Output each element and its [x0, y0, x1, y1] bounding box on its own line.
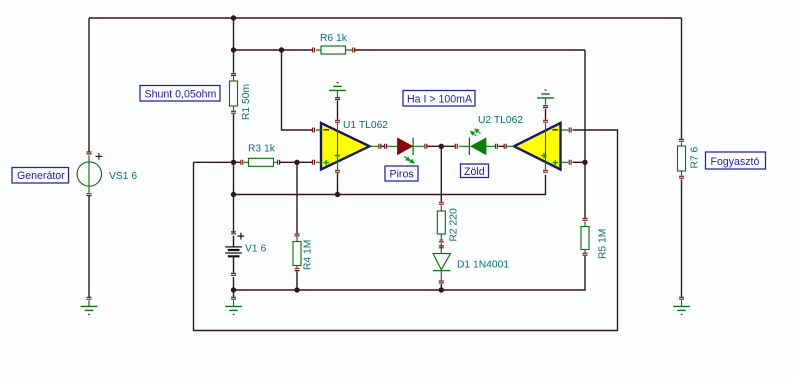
resistor R2 220	[437, 202, 459, 242]
svg-text:V1 6: V1 6	[245, 244, 266, 255]
svg-text:Generátor: Generátor	[17, 170, 65, 182]
node R3-R4 junction	[294, 160, 299, 165]
svg-text:Piros: Piros	[390, 169, 414, 181]
wire R6 row right	[355, 49, 585, 51]
wire U2 minus input feedback loop	[194, 130, 618, 331]
wire R6 right branch down to U2 plus node	[584, 50, 586, 218]
wire R6 row left	[234, 49, 312, 51]
wire R3 to U1 plus input	[280, 161, 312, 163]
resistor R6 1k	[313, 33, 355, 54]
ground below generator	[81, 297, 98, 315]
wire shunt column upper	[233, 18, 235, 73]
ground above U2	[537, 89, 554, 104]
wire left column (generator top)	[88, 18, 90, 152]
resistor R7 6	[678, 139, 701, 178]
resistor R3 1k	[241, 144, 280, 167]
wire R6 branch down to U1 inverting input	[282, 50, 313, 130]
svg-text:R7 6: R7 6	[690, 146, 701, 168]
node U1 V+ rail junction	[335, 192, 340, 197]
svg-text:R1 50m: R1 50m	[241, 84, 252, 120]
resistor R4 1M	[293, 234, 314, 271]
ground below battery	[225, 297, 242, 315]
LED D2 red (Piros)	[379, 138, 427, 163]
wire U1 V- to ground	[337, 101, 339, 120]
diode D1 1N4001	[433, 243, 509, 283]
wire LED D2 to node	[427, 145, 454, 147]
svg-text:R3 1k: R3 1k	[248, 144, 276, 155]
wire generator bottom to ground	[88, 196, 90, 298]
svg-text:U2 TL062: U2 TL062	[478, 115, 523, 126]
svg-text:Ha I > 100mA: Ha I > 100mA	[407, 93, 473, 105]
node battery-rail junction	[231, 192, 236, 197]
resistor R5 1M	[581, 218, 609, 259]
wire supply rail y194	[234, 175, 546, 195]
op-amp U1 TL062	[313, 98, 389, 173]
svg-text:R2 220: R2 220	[449, 208, 460, 241]
voltage source VS1 6	[77, 152, 137, 196]
node D1 bottom junction	[439, 287, 444, 292]
node R6-feedback junction	[279, 47, 284, 52]
svg-text:U1 TL062: U1 TL062	[343, 120, 388, 131]
node battery ground junction	[231, 287, 236, 292]
wire shunt column mid	[233, 114, 235, 233]
wire U1 output to LED	[381, 145, 385, 147]
LED D3 green (Zold)	[455, 129, 506, 155]
label Ha I > 100mA	[403, 91, 475, 107]
wire node R3-R4 column	[296, 162, 298, 233]
ground above U1	[329, 82, 346, 97]
label Zold	[461, 164, 489, 178]
wire node to R2	[440, 146, 442, 201]
battery V1 6	[225, 232, 266, 275]
svg-text:R5 1M: R5 1M	[598, 229, 609, 259]
wire U2 V- to ground	[545, 109, 547, 120]
node R3 left junction	[231, 160, 236, 165]
wire D1 to bottom rail	[440, 284, 442, 290]
wire R7 bottom to ground	[681, 179, 683, 297]
node U2 plus junction	[582, 160, 587, 165]
wire U2 plus input	[573, 161, 585, 163]
label Shunt 0,05ohm	[140, 86, 220, 102]
node LED junction	[439, 144, 444, 149]
wire top rail	[89, 17, 682, 19]
label Fogyaszto	[706, 152, 766, 169]
node top-shunt junction	[231, 15, 236, 20]
wire right column R7 top	[681, 18, 683, 139]
svg-text:R6 1k: R6 1k	[320, 33, 348, 44]
svg-text:Shunt 0,05ohm: Shunt 0,05ohm	[145, 88, 217, 100]
op-amp U2 TL062	[478, 106, 571, 173]
wire R5 bottom to bottom rail	[234, 256, 586, 290]
ground below R7	[673, 297, 690, 315]
svg-text:D1 1N4001: D1 1N4001	[457, 260, 509, 271]
label Generator	[12, 168, 69, 184]
wire R3 row	[194, 161, 241, 163]
svg-text:VS1 6: VS1 6	[109, 171, 137, 182]
resistor R1 50m (shunt)	[230, 74, 253, 120]
svg-text:R4 1M: R4 1M	[303, 240, 314, 270]
node shunt-R6 junction	[231, 47, 236, 52]
label Piros	[385, 166, 418, 181]
wire R4 bottom	[296, 271, 298, 290]
wire U1 V+ to rail	[337, 173, 339, 195]
svg-text:Fogyasztó: Fogyasztó	[711, 156, 760, 168]
node R4 bottom junction	[294, 287, 299, 292]
svg-text:Zöld: Zöld	[464, 166, 485, 178]
wire battery bottom	[233, 277, 235, 298]
wire green LED to U2	[499, 145, 504, 147]
